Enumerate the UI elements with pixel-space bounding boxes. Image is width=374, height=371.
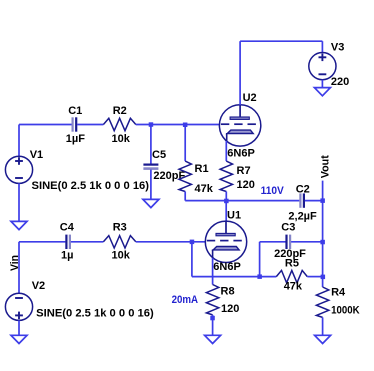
svg-text:2,2µF: 2,2µF (288, 210, 317, 222)
wire feedback run (192, 276, 260, 278)
wire C3 left down (259, 242, 261, 277)
wire to R5 (260, 276, 277, 278)
wire R1 to R7 node (185, 200, 226, 202)
wire R4 to ground (322, 317, 324, 335)
svg-text:1µ: 1µ (61, 249, 73, 261)
wire node to C2 (226, 200, 299, 202)
svg-text:6N6P: 6N6P (213, 261, 241, 273)
voltage source V1 (5, 156, 32, 183)
capacitor C3 (287, 235, 291, 249)
wire top corner to V1 (18, 125, 20, 157)
wire U2 plate up (239, 41, 241, 105)
wire V1 to ground (18, 183, 20, 221)
svg-text:10k: 10k (112, 249, 131, 261)
wire R2 to U2 grid (136, 124, 220, 126)
junction node R1/R7/U1-plate (224, 199, 229, 204)
wire V3 to ground (321, 80, 323, 88)
wire corner to C3 (260, 241, 286, 243)
triode U2 (219, 105, 260, 146)
svg-text:U2: U2 (243, 92, 257, 104)
svg-text:R3: R3 (113, 222, 127, 234)
svg-text:6N6P: 6N6P (227, 147, 255, 159)
svg-text:R8: R8 (221, 286, 235, 298)
wire grid node down (191, 242, 193, 277)
capacitor C1 (73, 117, 77, 131)
ground GND V1 (11, 221, 27, 229)
capacitor C2 (300, 193, 304, 207)
junction node R5/R4/Vout (321, 275, 326, 280)
svg-text:R7: R7 (237, 165, 251, 177)
wire R3 to U1 grid (136, 241, 206, 243)
wire node to R4 (322, 277, 324, 287)
wire R7 to node (225, 192, 227, 201)
wire top to V3 (240, 40, 322, 42)
svg-text:220: 220 (331, 76, 349, 88)
svg-text:C4: C4 (60, 222, 75, 234)
resistor R8 (206, 285, 218, 315)
svg-text:1µF: 1µF (66, 133, 85, 145)
wire Vout vertical (322, 181, 324, 277)
wire Vin to C4 (19, 241, 65, 243)
wire to V3 (321, 41, 323, 52)
svg-text:220pF: 220pF (274, 248, 306, 260)
junction node below R8 (210, 316, 215, 321)
resistor R4 (316, 287, 328, 317)
svg-text:V1: V1 (30, 149, 43, 161)
wire U2 cathode to R7 (225, 141, 227, 161)
svg-text:C2: C2 (296, 184, 310, 196)
svg-text:C3: C3 (281, 222, 295, 234)
svg-text:C1: C1 (68, 105, 82, 117)
wire R8 to ground (212, 315, 214, 336)
wire C1 to R2 (77, 124, 103, 126)
ground GND V2 (11, 335, 27, 343)
svg-text:Vout: Vout (319, 155, 331, 178)
capacitor C5 (143, 165, 158, 169)
svg-text:47k: 47k (284, 280, 303, 292)
wire node to U1 plate (225, 201, 227, 222)
wire V1-top to C1 (19, 124, 72, 126)
junction node C3/R5 (257, 274, 262, 279)
wire C4 to R3 (71, 241, 104, 243)
junction node C5 tap (149, 122, 154, 127)
wire corner to V2 (18, 242, 20, 293)
svg-text:R2: R2 (113, 105, 127, 117)
junction node U1 grid (190, 240, 195, 245)
resistor R3 (103, 236, 135, 248)
triode U1 (205, 221, 246, 262)
svg-text:1000K: 1000K (331, 304, 360, 316)
wire C3 to Vout (291, 241, 323, 243)
resistor R5 (276, 270, 307, 282)
wire to C5 (150, 125, 152, 165)
junction node R1/grid (183, 123, 188, 128)
svg-text:C5: C5 (152, 149, 166, 161)
junction node C2/Vout (320, 198, 325, 203)
ground GND R8 (205, 335, 221, 343)
wire U1 cathode down (212, 258, 214, 285)
wire C5 to ground (150, 170, 152, 200)
svg-text:V2: V2 (32, 280, 45, 292)
junction node C3/Vout (320, 240, 325, 245)
svg-text:110V: 110V (261, 185, 285, 197)
ground GND V3 (314, 88, 330, 96)
svg-text:V3: V3 (331, 41, 344, 53)
wire grid node to R1 (184, 125, 186, 162)
resistor R1 (179, 161, 191, 191)
resistor R2 (103, 118, 135, 130)
svg-text:SINE(0 2.5 1k 0 0 0 16): SINE(0 2.5 1k 0 0 0 16) (32, 180, 150, 192)
ground GND R4 (315, 335, 331, 343)
svg-text:47k: 47k (195, 183, 214, 195)
svg-text:120: 120 (237, 179, 255, 191)
wire C2 to Vout (305, 200, 323, 202)
wire V2 to ground (18, 320, 20, 335)
svg-text:20mA: 20mA (172, 294, 199, 306)
voltage source V3 (309, 53, 336, 80)
svg-text:U1: U1 (227, 210, 241, 222)
svg-text:R4: R4 (331, 287, 346, 299)
voltage source V2 (5, 293, 32, 320)
svg-text:R1: R1 (195, 163, 209, 175)
wire R5 to Vout node (307, 276, 322, 278)
wire R1 to node (184, 192, 186, 201)
svg-text:120: 120 (221, 303, 239, 315)
svg-text:SINE(0 2.5 1k 0 0 0 16): SINE(0 2.5 1k 0 0 0 16) (36, 308, 154, 320)
resistor R7 (220, 161, 232, 191)
svg-text:10k: 10k (112, 133, 131, 145)
ground GND C5 (143, 199, 159, 207)
capacitor C4 (66, 235, 70, 249)
